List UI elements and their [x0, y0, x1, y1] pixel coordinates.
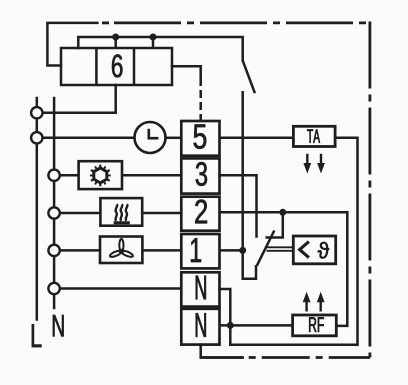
label 1: [191, 238, 201, 262]
wire row N: circle to terminal N: [60, 287, 182, 290]
thermostat box: [293, 236, 335, 264]
terminal circle T2: [31, 132, 42, 143]
heating icon: [114, 204, 130, 223]
label theta: [318, 242, 329, 259]
border bottom (dash-dot): [201, 356, 370, 359]
wire row 1: circle to fan box: [60, 249, 100, 252]
border top (dash-dot): [102, 21, 109, 24]
wire row 2: circle to heater box: [60, 212, 101, 215]
label RF: [309, 317, 324, 332]
wire row 3: circle to snowflake box: [60, 174, 79, 177]
label TA: [307, 129, 320, 142]
terminal circle T1: [31, 107, 42, 118]
TA arrow down 2: [317, 154, 325, 174]
wire node B drop to contact bar: [267, 212, 283, 237]
wire left outer vertical (L feed): [36, 97, 39, 321]
terminal circle T5: [48, 245, 59, 256]
RF arrow up 2: [317, 292, 325, 312]
switch S1 blade: [243, 61, 255, 94]
terminal circle T3: [48, 170, 59, 181]
wire TA right loop down-left-up to node C: [230, 138, 357, 345]
terminal circle T6: [48, 283, 59, 294]
wire top bus to switch: [78, 37, 242, 61]
junction node B: [279, 209, 286, 216]
cooling box E1: [79, 161, 122, 189]
wire switch lower contact down to node A: [241, 91, 244, 250]
terminal strip: box N2: [181, 309, 219, 345]
wire terminal N1 to node C: [220, 289, 231, 325]
RF arrow up 1: [303, 292, 311, 312]
wire snowflake to terminal 3: [122, 174, 181, 177]
wire relay cell2 bottom to terminal circle T1: [43, 85, 116, 113]
TA arrow down 1: [303, 154, 311, 174]
fan box M1: [100, 237, 142, 264]
wire terminal N2 to RF: [220, 324, 293, 327]
relay box K1 (3 cells): [61, 48, 172, 85]
RF box: [293, 315, 337, 336]
wire left inner vertical (L feed): [53, 97, 56, 309]
thermostat symbol <: [300, 242, 309, 258]
wire terminal 5 to TA: [220, 137, 294, 140]
label N2: [196, 313, 206, 337]
wire heater to terminal 2: [142, 212, 181, 215]
label 3: [196, 162, 207, 186]
snowflake icon: [90, 165, 111, 187]
wire terminal N2 bottom stub to border: [201, 345, 243, 358]
terminal strip: box 1: [181, 234, 219, 268]
terminal strip: box 5: [181, 121, 219, 156]
thermostat actuator link: [266, 247, 293, 251]
label 6: [112, 55, 122, 78]
thermostat B1 blade: [257, 231, 275, 266]
label 2: [195, 200, 207, 224]
clock U2: [135, 122, 166, 153]
relay cell divider 2: [133, 48, 136, 85]
wire terminal 1 to node A: [220, 249, 243, 252]
junction dot cell3: [150, 34, 157, 41]
label Nsup: [53, 315, 64, 336]
junction node C: [227, 322, 234, 329]
label L: [32, 324, 42, 347]
heating box E2: [100, 198, 142, 226]
wire relay right to terminal 5 (dashed link): [172, 66, 201, 78]
relay cell divider 1: [95, 48, 98, 85]
junction dot cell2: [112, 34, 119, 41]
label 5: [194, 125, 207, 149]
wire row 5: circle to clock: [43, 137, 135, 140]
junction node A: [239, 247, 246, 254]
terminal strip: box 3: [181, 158, 219, 193]
wire thermostat pivot U: [243, 250, 256, 278]
border right (dash-dot): [368, 22, 371, 358]
wire terminal 3 to thermostat contact: [220, 175, 257, 236]
wire fan to terminal 1: [142, 249, 181, 252]
fan icon: [109, 239, 134, 258]
TA box: [293, 126, 335, 146]
wire branch down to RF right: [336, 212, 347, 326]
terminal strip: box 2: [181, 197, 219, 231]
label N1: [196, 276, 206, 300]
wire L-feed to relay box left (solid, merges into border top-left): [47, 23, 97, 66]
wire terminal 2 row to RF branch corner: [220, 211, 348, 214]
terminal circle T4: [48, 207, 59, 218]
wire stub cell2: [114, 37, 117, 48]
wire clock to terminal 5: [166, 137, 182, 140]
terminal strip: box N1: [181, 272, 219, 306]
wire stub cell3: [152, 37, 155, 48]
